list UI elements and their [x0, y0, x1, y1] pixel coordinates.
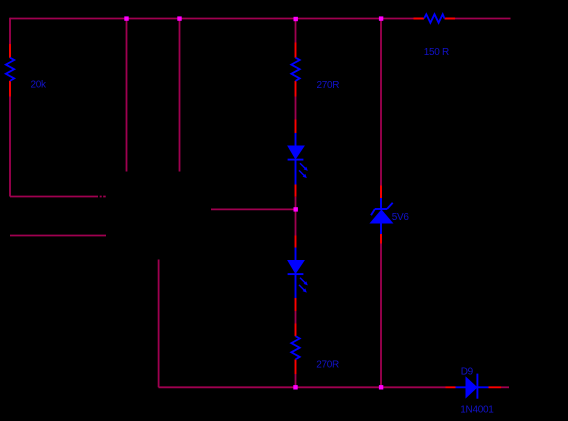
wire vertical at x=126.5: [126, 19, 128, 172]
svg-text:270R: 270R: [317, 80, 340, 91]
junction node top rail at x=295.5: [294, 17, 298, 21]
resistor R4 150R pins (horizontal, top right): [414, 18, 456, 20]
resistor R4 150R body: [424, 14, 445, 23]
LED D-LED2 body: [288, 248, 306, 299]
wire vertical at x=179.5: [179, 19, 181, 172]
junction node bottom rail at x=295.5: [293, 385, 297, 389]
wire left vertical upper: [9, 18, 11, 44]
wire left horizontal to hidden pin (node row 1): [10, 196, 106, 198]
resistor R1 20k body: [6, 58, 14, 81]
junction node LED column mid: [294, 207, 298, 211]
wire bottom rail right segment: [501, 386, 509, 388]
resistor R2 270R body: [291, 58, 299, 81]
wire vertical at x=158.5 down to bottom rail: [158, 260, 160, 388]
wire middle column segments: [295, 19, 297, 388]
svg-text:270R: 270R: [316, 359, 339, 370]
svg-text:5V6: 5V6: [392, 212, 410, 223]
wire bottom rail left segment: [159, 386, 446, 388]
wire left vertical lower: [9, 97, 11, 197]
resistor R1 20k pins: [9, 44, 11, 97]
wire top rail right segment: [455, 18, 511, 20]
junction node bottom rail at x=381: [379, 385, 383, 389]
junction node top rail at x=381: [379, 16, 383, 20]
LED D-LED2 arrowheads: [304, 281, 308, 285]
LED D-LED2 pins: [295, 236, 297, 312]
resistor R3 270R body: [291, 336, 299, 359]
svg-text:1N4001: 1N4001: [460, 405, 494, 416]
zener diode 5V6 body: [371, 198, 393, 234]
diode D9 pins: [446, 386, 502, 388]
LED D-LED1 arrowheads: [304, 167, 308, 171]
LED D-LED1 pins: [295, 120, 297, 197]
diode D9 body: [456, 374, 489, 399]
resistor R3 270R pins: [295, 324, 297, 375]
zener diode 5V6 pins: [380, 186, 382, 244]
svg-text:150 R: 150 R: [424, 47, 449, 58]
svg-text:D9: D9: [461, 367, 474, 378]
junction node top rail at x=126.5: [124, 16, 128, 20]
wire middle horizontal to LED junction: [211, 208, 296, 210]
wire right column segments: [380, 19, 382, 388]
resistor R2 270R pins: [295, 43, 297, 97]
svg-text:20k: 20k: [31, 80, 48, 91]
wire top rail left segment: [10, 18, 414, 20]
LED D-LED1 body: [288, 133, 306, 185]
wire left horizontal (node row 2): [10, 235, 106, 237]
junction node top rail at x=179.5: [177, 16, 181, 20]
